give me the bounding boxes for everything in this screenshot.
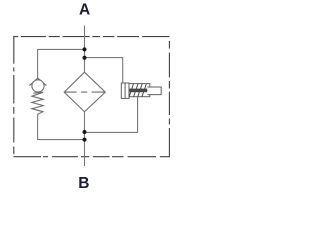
check valve V1 seat bbox=[29, 78, 46, 85]
indicator S1 plunger stem bbox=[147, 87, 161, 95]
check valve V1 ball bbox=[32, 80, 44, 92]
dashed enclosure border left bbox=[13, 36, 15, 154]
wire: port A vertical into enclosure bbox=[84, 26, 86, 73]
svg-text:A: A bbox=[79, 1, 90, 18]
svg-text:B: B bbox=[78, 175, 89, 192]
wire: top branch to indicator bbox=[85, 58, 123, 84]
junction dot bottom 2 bbox=[83, 138, 87, 142]
junction dot top 1 bbox=[83, 47, 87, 51]
wire: top branch to check valve bbox=[38, 49, 85, 78]
dashed enclosure border top bbox=[13, 36, 169, 38]
wire: filter bottom vertex down to port B bbox=[84, 112, 86, 166]
dashed enclosure border right bbox=[168, 41, 170, 157]
junction dot bottom 1 bbox=[83, 130, 87, 134]
check valve V1 spring bbox=[32, 92, 43, 114]
wire: bottom branch from check valve bbox=[38, 114, 85, 139]
wire: bottom branch from indicator bbox=[85, 97, 138, 132]
indicator S1 piston box bbox=[121, 83, 129, 98]
indicator S1 spring slash 2 bbox=[134, 84, 138, 97]
filter F1 element dashed line bbox=[64, 91, 105, 93]
indicator S1 spring slash 1 bbox=[129, 84, 133, 97]
filter F1 diamond body bbox=[64, 72, 105, 112]
indicator S1 spring slash 3 bbox=[138, 84, 142, 97]
junction dot top 2 bbox=[83, 56, 87, 60]
dashed enclosure border bottom bbox=[14, 156, 170, 158]
indicator S1 spring slash 4 bbox=[142, 84, 146, 97]
indicator S1 piston divider bbox=[124, 83, 126, 98]
indicator S1 spring housing bbox=[129, 84, 150, 97]
indicator S1 rod (dark) bbox=[130, 89, 148, 93]
